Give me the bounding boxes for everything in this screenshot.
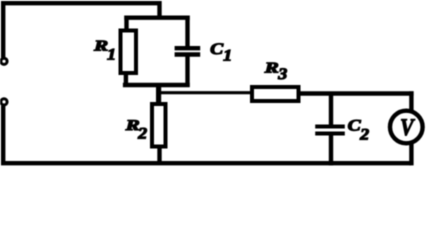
terminal (bottom input) [1, 99, 7, 105]
wire bottom rail of parallel block [123, 83, 190, 87]
wire C1 top lead [185, 16, 189, 49]
svg-text:R: R [93, 38, 108, 54]
svg-text:R: R [263, 60, 278, 76]
terminal (top input) [1, 58, 7, 64]
resistor R2 [152, 104, 166, 147]
wire R2 bottom lead [157, 147, 161, 164]
wire top rail of parallel block [124, 16, 189, 20]
svg-text:1: 1 [107, 46, 116, 63]
wire R1 top lead [124, 16, 128, 31]
wire voltmeter top lead [409, 91, 413, 112]
capacitor C1 [175, 48, 201, 54]
svg-text:3: 3 [277, 66, 287, 83]
node junction stub [156, 83, 161, 104]
wire C2 bottom lead [329, 134, 333, 166]
svg-text:1: 1 [223, 48, 232, 65]
svg-text:C: C [210, 41, 223, 58]
wire top-left loop [3, 3, 159, 57]
resistor R3 [252, 87, 299, 101]
resistor R1 [121, 31, 137, 74]
svg-text:2: 2 [137, 126, 147, 143]
svg-text:V: V [400, 115, 415, 141]
svg-text:2: 2 [359, 126, 369, 143]
wire C2 top lead [329, 92, 333, 127]
wire middle (node to R3) [159, 91, 252, 94]
wire bottom-left and bottom rail [3, 106, 411, 164]
wire R1 bottom lead [124, 73, 128, 86]
svg-text:C: C [348, 118, 361, 135]
wire R3 to voltmeter branch [298, 91, 414, 95]
wire voltmeter bottom lead [409, 142, 413, 165]
wire C1 bottom lead [185, 55, 189, 88]
capacitor C2 [315, 127, 345, 134]
voltmeter V [390, 111, 423, 144]
